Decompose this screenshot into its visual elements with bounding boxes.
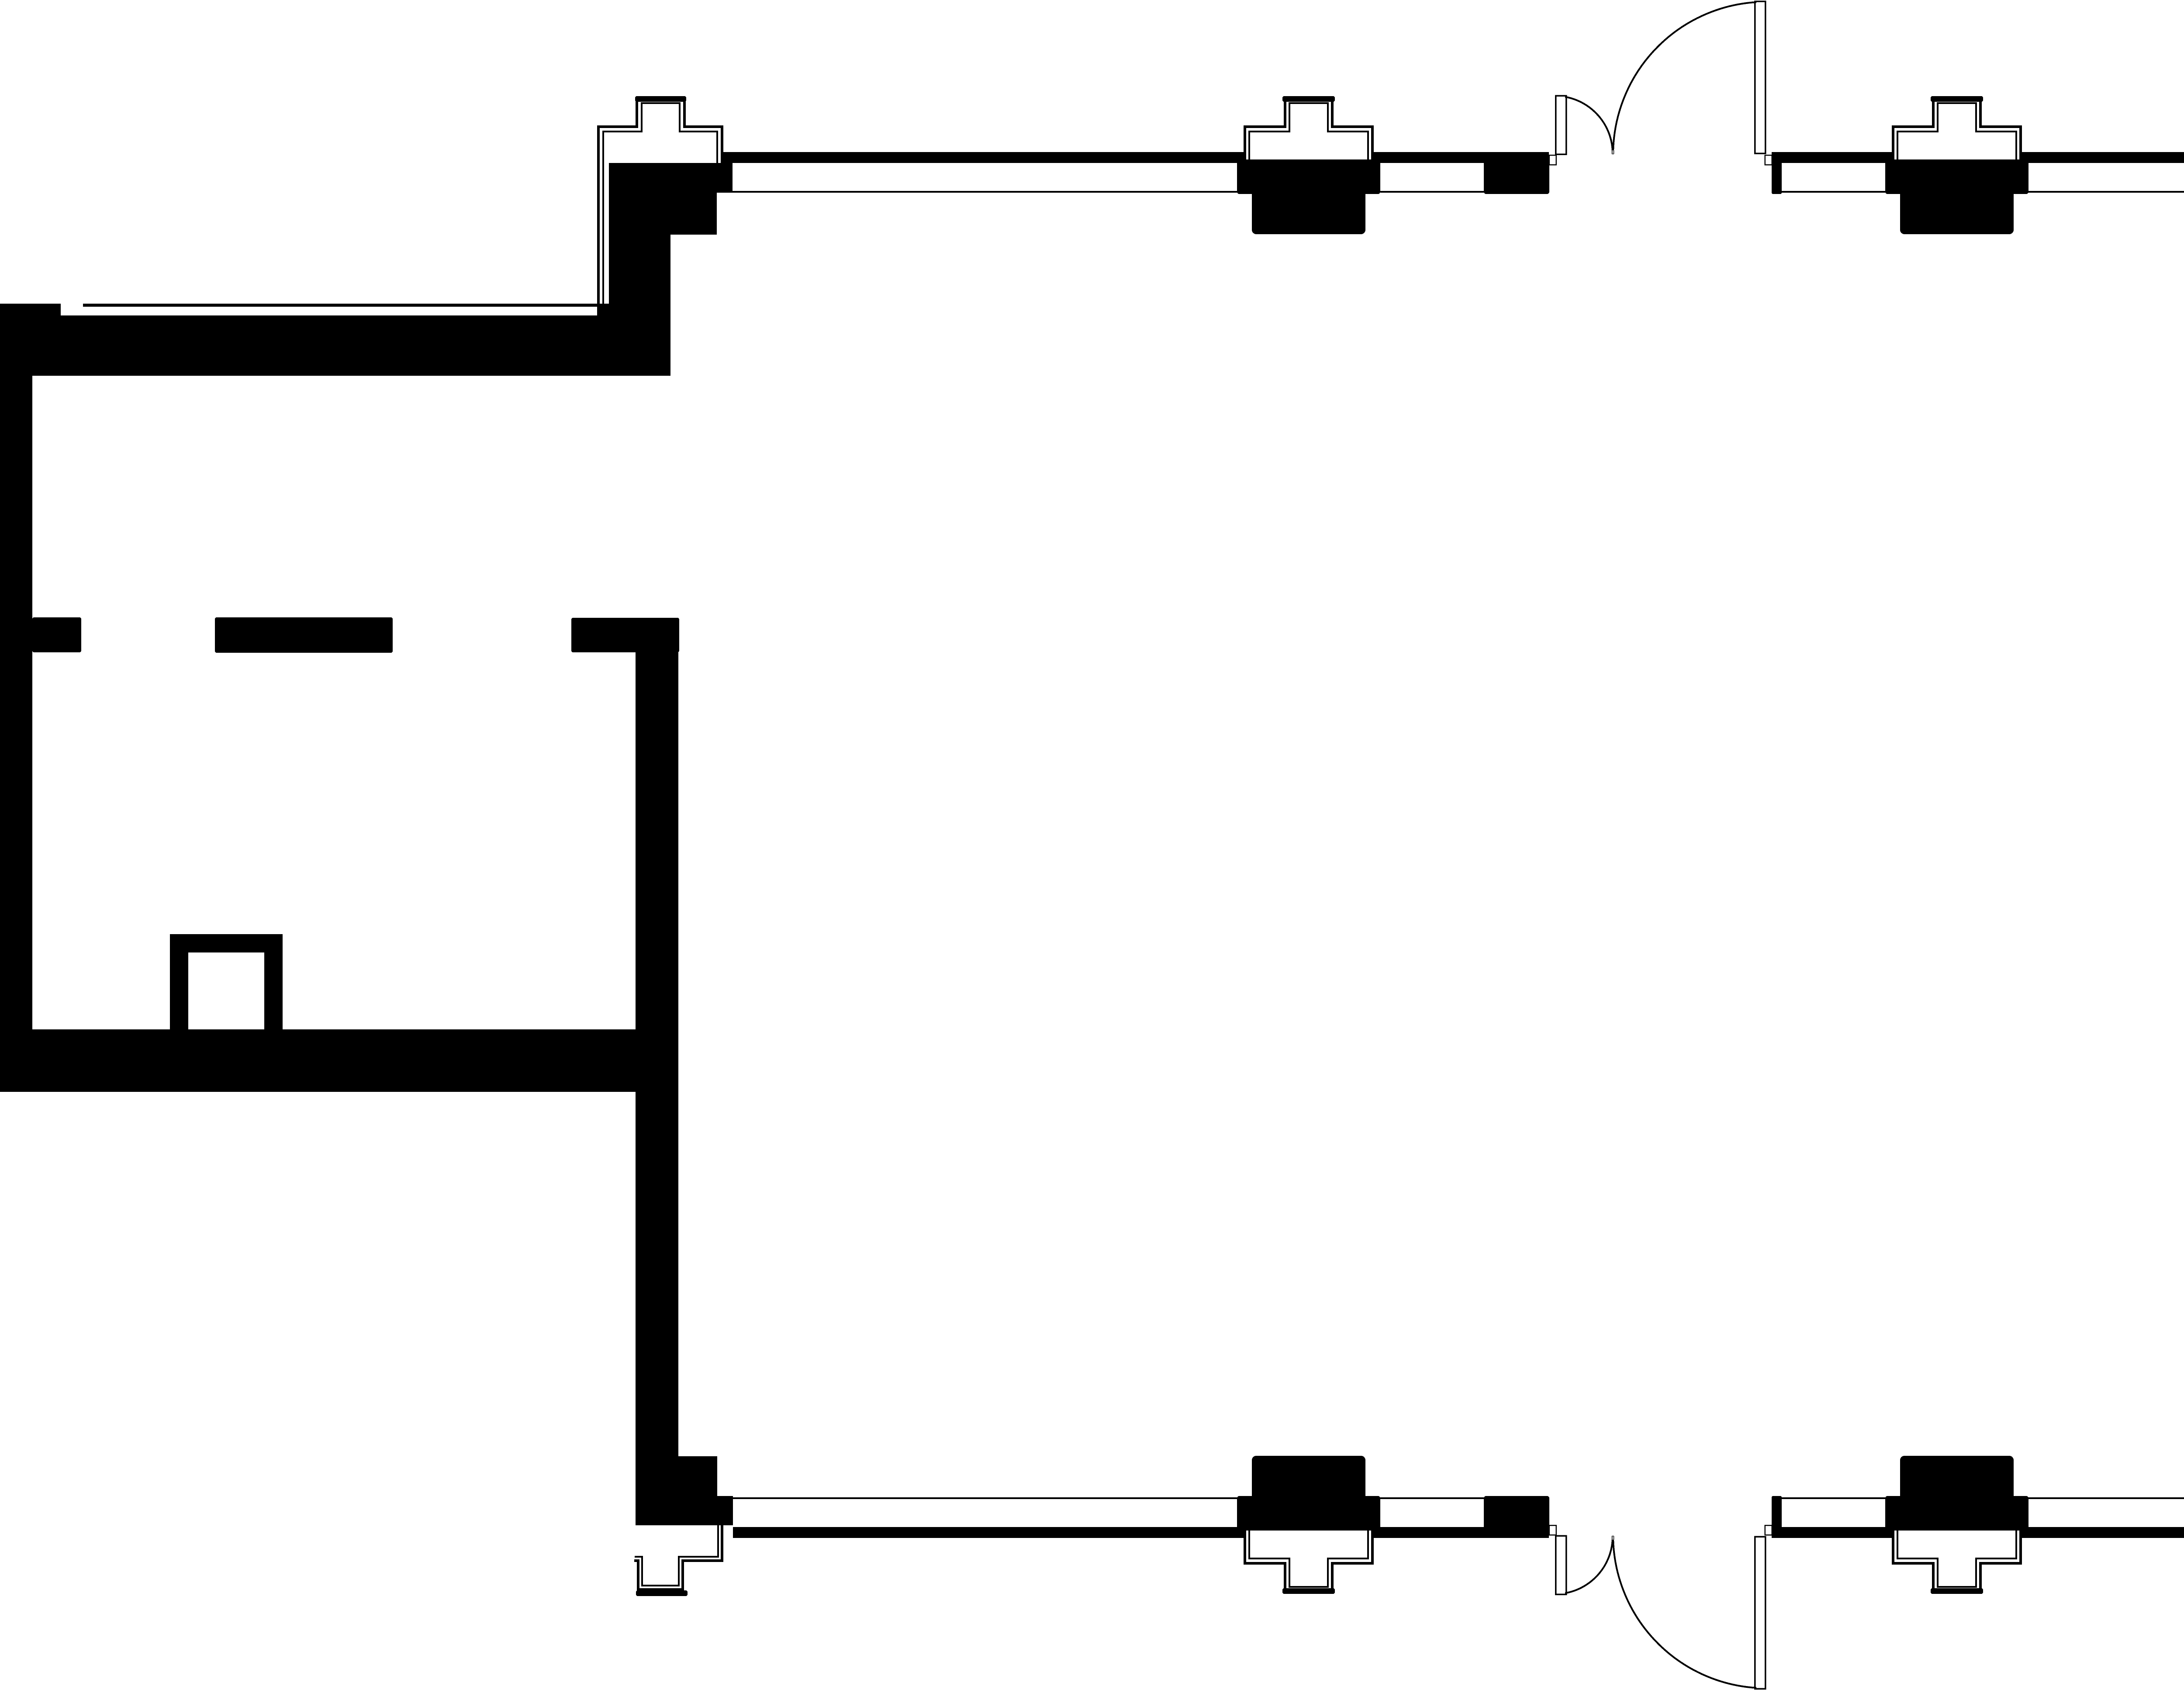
- column S1 (bottom wall, left): inner shaft block: [1252, 1456, 1365, 1500]
- window: bottom glazing line 2: [1380, 1497, 1484, 1499]
- pilaster outline outer: bottom-left corner: [636, 1525, 722, 1590]
- column S2 (bottom wall, right): pilaster cap bar: [1931, 1588, 1983, 1594]
- window: top glazing line 1: [733, 191, 1237, 193]
- recess slot open notch at left end: [61, 304, 83, 315]
- pilaster outline inner: top-left corner: [603, 103, 717, 307]
- column N1 (top wall, left): wide footing block: [1237, 159, 1380, 194]
- column N1 (top wall, left): inner shaft block: [1252, 190, 1365, 234]
- wall: top-left corner block B: [609, 193, 717, 235]
- door leaf: top large leaf: [1755, 1, 1766, 153]
- door leaf: bottom small leaf: [1556, 1536, 1566, 1594]
- wall: wing left exterior wall: [0, 304, 32, 1092]
- door leaf: top small leaf: [1556, 96, 1566, 154]
- window: top glazing line 3: [1782, 191, 1885, 193]
- window: top glazing line 4: [2028, 191, 2184, 193]
- wall: interior partition right segment: [571, 618, 679, 652]
- wall: bottom exterior wall segment 4: [2021, 1527, 2184, 1538]
- door jamb: bottom right: [1765, 1525, 1772, 1535]
- door swing arc: bottom small leaf: [1566, 1537, 1613, 1593]
- wall: top exterior wall segment 2: [1372, 152, 1549, 163]
- door meeting point dot (bottom): [1611, 1536, 1614, 1540]
- door jamb: top left: [1549, 155, 1556, 165]
- wall: bottom door right end block: [1772, 1496, 1782, 1532]
- column N2 (top wall, right): pilaster outline outer: [1893, 99, 2021, 165]
- column N2 (top wall, right): inner shaft block: [1900, 190, 2014, 234]
- wall: bottom exterior wall segment 2: [1372, 1527, 1549, 1538]
- column S2 (bottom wall, right): wide footing block: [1885, 1496, 2028, 1531]
- column S1 (bottom wall, left): pilaster outline outer: [1245, 1525, 1372, 1591]
- wall: main hall left wall upper: [609, 235, 670, 376]
- wall: wing right wall / hall left wall lower: [636, 618, 678, 1525]
- wall: bottom-left corner step block: [678, 1456, 717, 1525]
- column S2 (bottom wall, right): pilaster outline outer: [1893, 1525, 2021, 1591]
- column S1 (bottom wall, left): wide footing block: [1237, 1496, 1380, 1531]
- wall: interior partition middle segment: [215, 617, 393, 653]
- chimney / duct: inner void: [188, 952, 264, 1029]
- column N1 (top wall, left): pilaster cap bar: [1282, 96, 1335, 102]
- wall: wing top wall band: [0, 304, 670, 376]
- wall: bottom door left end block: [1484, 1496, 1549, 1532]
- wall: top exterior wall segment 3: [1772, 152, 1893, 163]
- wall: top exterior wall segment 4: [2021, 152, 2184, 163]
- window: bottom glazing line 3: [1782, 1497, 1885, 1499]
- wall: bottom-left corner small block: [717, 1496, 733, 1525]
- window: bottom glazing line 1: [733, 1497, 1237, 1499]
- door swing arc: top small leaf: [1566, 97, 1613, 153]
- pilaster cap bar: top-left corner: [635, 96, 686, 102]
- wall: top exterior wall segment 1: [723, 152, 1245, 163]
- wall: bottom exterior wall segment 3: [1772, 1527, 1893, 1538]
- column N2 (top wall, right): pilaster outline inner: [1897, 103, 2016, 165]
- door jamb: bottom left: [1549, 1525, 1556, 1535]
- door meeting point dot (top): [1611, 150, 1614, 154]
- door swing arc: bottom large leaf: [1613, 1537, 1755, 1688]
- wall: bottom exterior wall segment 1: [733, 1527, 1245, 1538]
- column S1 (bottom wall, left): pilaster outline inner: [1249, 1525, 1368, 1587]
- column N1 (top wall, left): pilaster outline inner: [1249, 103, 1368, 165]
- pilaster outline inner: bottom-left corner: [636, 1525, 718, 1586]
- door swing arc: top large leaf: [1613, 2, 1755, 153]
- door jamb: top right: [1765, 155, 1772, 165]
- pilaster outline outer: top-left corner: [598, 99, 722, 307]
- window: bottom glazing line 4: [2028, 1497, 2184, 1499]
- chimney / duct: outer: [170, 934, 283, 1029]
- wall: top-left corner block A: [609, 163, 733, 193]
- column N1 (top wall, left): pilaster outline outer: [1245, 99, 1372, 165]
- door leaf: bottom large leaf: [1755, 1537, 1766, 1689]
- column S1 (bottom wall, left): pilaster cap bar: [1282, 1588, 1335, 1594]
- wall: interior partition stub at left wall: [32, 617, 81, 652]
- column N2 (top wall, right): pilaster cap bar: [1931, 96, 1983, 102]
- wall: top door left end block: [1484, 158, 1549, 194]
- column N2 (top wall, right): wide footing block: [1885, 159, 2028, 194]
- pilaster cap bar: bottom-left corner: [636, 1590, 688, 1596]
- wall: top door right end block: [1772, 158, 1782, 194]
- column S2 (bottom wall, right): inner shaft block: [1900, 1456, 2014, 1500]
- wall: wing bottom exterior wall: [0, 1029, 678, 1092]
- recess slot in wing top wall: [62, 307, 597, 315]
- column S2 (bottom wall, right): pilaster outline inner: [1897, 1525, 2016, 1587]
- window: top glazing line 2: [1380, 191, 1484, 193]
